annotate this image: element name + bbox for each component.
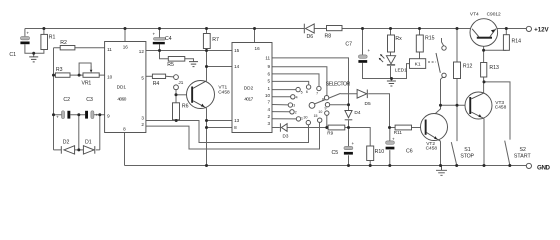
svg-text:13: 13 — [234, 118, 240, 123]
svg-text:3: 3 — [293, 104, 295, 108]
wire diode row D2 D1 — [54, 149, 100, 151]
svg-text:DD1: DD1 — [117, 84, 127, 89]
wire C2/C3 line to DD1 pin 9 — [54, 114, 105, 116]
wire DD2 pin 16 to rail — [254, 29, 256, 43]
diode D6 — [303, 24, 305, 34]
svg-text:30: 30 — [304, 116, 308, 120]
wire DD1 pin 2 route to selector contact 15 — [146, 122, 320, 149]
wire C4 bottom lead — [159, 44, 161, 50]
wire R14 top lead — [505, 29, 507, 35]
wire VT2 collector riser — [427, 105, 441, 121]
svg-text:C458: C458 — [495, 104, 507, 110]
svg-text:C5: C5 — [332, 150, 339, 156]
resistor R12 — [454, 62, 461, 79]
selector contact 3 — [288, 103, 292, 107]
svg-text:C3: C3 — [86, 97, 93, 103]
wire VT3 emitter to ground rail — [483, 119, 485, 166]
wire DD2 pin 7 to contact 3 — [272, 104, 288, 106]
wire C6 top lead — [389, 128, 391, 141]
capacitor C6 — [386, 141, 395, 144]
svg-text:5: 5 — [301, 91, 303, 95]
svg-text:+: + — [153, 31, 156, 36]
resistor R13 — [481, 63, 487, 78]
wire D3 to R9 — [287, 127, 328, 129]
selector contact 8 — [324, 96, 328, 100]
wire R12 top lead — [456, 29, 458, 63]
svg-text:C7: C7 — [345, 41, 352, 47]
resistor R3 — [55, 73, 70, 77]
svg-text:+: + — [392, 136, 395, 141]
wire R11 line left — [390, 127, 396, 129]
svg-text:R2: R2 — [60, 40, 67, 46]
transistor VT4 — [470, 19, 498, 47]
wire R1 top lead — [43, 29, 45, 35]
svg-text:DD2: DD2 — [244, 85, 254, 90]
wire D4 column through D4 to R9 node — [348, 105, 350, 128]
svg-text:C458: C458 — [426, 145, 438, 151]
svg-text:7: 7 — [268, 100, 271, 105]
wire bottom ground rail — [125, 165, 527, 167]
wire R3/VR1 line to DD1 pin 10 — [54, 74, 105, 76]
potentiometer VR1 — [83, 73, 99, 77]
wire top rail R8 to VT4 collector — [342, 28, 472, 30]
wire R13 top lead — [483, 50, 485, 62]
wire R5 branch to ground — [160, 51, 194, 62]
svg-text:GND: GND — [537, 164, 551, 171]
wire DD2 pin 3 to D3 — [272, 127, 280, 129]
wire DD2 pin 10 to contact 4 — [272, 96, 291, 98]
svg-text:+: + — [26, 30, 29, 35]
selector contact 1 — [296, 117, 300, 121]
LED1 — [386, 56, 395, 64]
wire LED1 cathode to ground node — [390, 66, 392, 79]
resistor R5 — [168, 57, 185, 62]
transistor VT3 — [465, 92, 492, 119]
wire DD2 pin 2 to contact 1 — [272, 118, 296, 120]
capacitor C5 — [344, 146, 353, 149]
wire contact 10 stub — [326, 115, 328, 127]
wire Rx top lead — [390, 29, 392, 36]
svg-text:11: 11 — [265, 56, 270, 61]
resistor R6 — [173, 103, 180, 120]
wire R7 top lead — [206, 29, 208, 34]
diode D3 — [279, 123, 281, 131]
svg-text:R3: R3 — [56, 67, 63, 73]
svg-text:Rx: Rx — [395, 36, 402, 42]
selector contact 9 — [325, 103, 329, 107]
capacitor C3 — [85, 111, 88, 119]
wire C1 top lead — [24, 29, 26, 37]
wire K1 contact bottom to VT2 collector node — [441, 77, 443, 105]
selector contact 2 — [290, 110, 294, 114]
wire R9 to C5/D4 node and R10 corner — [345, 128, 370, 147]
wire R4 to J1 top — [166, 75, 174, 78]
selector contact 4 — [291, 95, 295, 99]
wire DD2 pin 9 to contact 8 — [272, 67, 327, 96]
svg-text:9: 9 — [107, 113, 110, 118]
wire VT1 base — [176, 94, 191, 96]
wire DD1 pin 3 route to selector contact 30 — [146, 121, 309, 143]
svg-text:10: 10 — [265, 93, 271, 98]
terminal GND — [526, 163, 531, 168]
selector contact 30 — [306, 120, 310, 124]
svg-text:2: 2 — [141, 122, 144, 127]
svg-text:+: + — [56, 114, 59, 119]
svg-text:3: 3 — [141, 115, 144, 120]
transistor VT2 — [421, 114, 448, 141]
wire R13 bottom to VT3 collector — [483, 77, 485, 93]
svg-text:R8: R8 — [325, 34, 332, 40]
wire C1 bottom lead to ground node — [25, 44, 34, 53]
wire C4 top lead — [159, 29, 161, 38]
wire to DD2 pin 8 — [207, 127, 233, 129]
wire contact 9 to D4 column — [330, 104, 349, 106]
wire DD2 pin 5 to contact 6 — [272, 81, 309, 84]
svg-text:2: 2 — [268, 114, 271, 119]
wire D5 to R11 column — [368, 94, 389, 128]
svg-text:C9012: C9012 — [487, 11, 501, 17]
wire R7 bottom to VT1 collector node — [206, 49, 208, 81]
svg-text:16: 16 — [255, 46, 261, 51]
selector contact 5 — [296, 87, 300, 91]
resistor R1 — [41, 34, 48, 49]
wire DD2 pin 1 to contact 5 — [272, 89, 296, 91]
wire C6 bottom lead — [389, 150, 391, 165]
wire Rx to LED1 — [390, 52, 392, 56]
svg-text:J1: J1 — [178, 80, 183, 85]
capacitor C4 — [153, 38, 165, 41]
svg-text:VR1: VR1 — [82, 81, 92, 87]
svg-text:D2: D2 — [63, 140, 70, 146]
svg-text:4: 4 — [268, 107, 271, 112]
wire C5 bottom lead — [348, 155, 350, 165]
svg-text:9: 9 — [268, 64, 271, 69]
svg-text:2: 2 — [295, 111, 297, 115]
svg-text:C458: C458 — [218, 89, 230, 95]
svg-text:+: + — [352, 141, 355, 146]
svg-text:R14: R14 — [512, 39, 522, 45]
resistor R14 — [503, 35, 509, 51]
wire top supply rail left segment — [25, 28, 304, 30]
svg-text:R12: R12 — [463, 63, 473, 69]
wire DD2 pin 6 to contact 7 — [272, 74, 319, 86]
svg-text:D3: D3 — [283, 134, 289, 139]
ground symbol after R5 — [189, 62, 198, 67]
capacitor C7 — [358, 55, 367, 58]
wire VT2 emitter to ground rail — [440, 141, 442, 165]
capacitor C2 — [62, 111, 65, 119]
svg-text:R10: R10 — [375, 149, 385, 155]
relay contact K1.1 — [442, 46, 446, 50]
svg-text:3: 3 — [268, 121, 271, 126]
svg-text:D4: D4 — [354, 110, 360, 116]
svg-text:R15: R15 — [425, 36, 435, 42]
wire R10 bottom lead — [369, 161, 371, 166]
terminal +12V — [526, 26, 531, 31]
svg-text:SELECTOR: SELECTOR — [326, 81, 351, 87]
svg-text:8: 8 — [123, 126, 126, 131]
diode D4 — [345, 111, 352, 118]
selector contact 6 — [306, 85, 310, 89]
wire J1 bottom to VT1 base node — [175, 90, 177, 95]
ground symbol under C1/R1 node — [29, 53, 38, 62]
wire to DD2 pin 13 — [207, 120, 233, 122]
svg-text:4060: 4060 — [117, 96, 126, 101]
relay coil K1 — [410, 59, 426, 69]
svg-text:12: 12 — [139, 49, 145, 54]
transistor VT1 — [187, 81, 215, 109]
selector contact 15 — [318, 118, 322, 122]
svg-text:S1: S1 — [464, 147, 470, 153]
svg-text:16: 16 — [123, 44, 129, 49]
resistor R9 — [328, 125, 345, 130]
wire +12V rail from VT4 emitter to terminal — [496, 28, 526, 30]
wire node to DD2 pin 14 — [207, 66, 233, 68]
IC DD1 4060 — [105, 42, 146, 133]
wire VT4 base lead — [483, 39, 485, 51]
svg-text:R5: R5 — [167, 62, 174, 68]
wire VT4 base node to R14 — [484, 49, 507, 51]
svg-text:C2: C2 — [63, 97, 70, 103]
svg-text:6: 6 — [306, 90, 308, 94]
wire DD1 pin 8 to ground rail — [124, 133, 126, 166]
wire VT1 emitter to ground rail — [206, 108, 208, 165]
wire R6 bottom to DD1 pin 3 route — [175, 119, 177, 122]
wire top rail between D6 and R8 — [314, 28, 326, 30]
diode D1 — [83, 146, 94, 154]
svg-text:START: START — [514, 154, 532, 160]
jumper J1 — [174, 75, 179, 80]
wire center tap C2C3 to diode junction — [78, 115, 80, 150]
svg-text:15: 15 — [234, 48, 240, 53]
svg-text:+12V: +12V — [534, 26, 549, 33]
svg-text:D5: D5 — [365, 101, 371, 107]
diode D2 — [60, 146, 62, 154]
ground symbol under VT2 emitter — [436, 166, 447, 176]
svg-text:K1: K1 — [415, 62, 421, 68]
svg-text:VT4: VT4 — [470, 11, 479, 17]
svg-text:10: 10 — [318, 110, 322, 114]
svg-text:LED1: LED1 — [395, 68, 407, 74]
resistor R10 — [367, 146, 374, 161]
resistor Rx — [388, 35, 395, 52]
svg-text:4: 4 — [296, 96, 298, 100]
wire C7 bottom to LED ground node — [363, 63, 392, 79]
resistor R4 — [152, 74, 165, 78]
wire DD1 pin 5 to R4 — [146, 75, 153, 77]
svg-text:5: 5 — [268, 78, 271, 83]
wire C5 top lead — [348, 128, 350, 147]
svg-text:R1: R1 — [49, 35, 56, 41]
wire node A vertical (R2/R3/C2/D2) — [53, 48, 55, 150]
svg-text:9: 9 — [325, 107, 327, 111]
svg-text:C1: C1 — [9, 52, 16, 58]
wire DD1 pin 16 to rail — [124, 29, 126, 42]
diode D5 — [357, 90, 367, 99]
wire S1 upper lead — [456, 105, 458, 141]
wire VR1 wiper tie — [79, 63, 91, 75]
svg-text:STOP: STOP — [460, 154, 474, 160]
capacitor C1 — [20, 37, 29, 40]
ground symbol under LED1 — [387, 79, 396, 87]
svg-text:10: 10 — [107, 74, 113, 79]
svg-text:+: + — [368, 48, 371, 53]
wire R15 to K1 coil — [419, 52, 421, 59]
wire selector wiper arm — [314, 93, 340, 104]
wire DD2 pin 4 to contact 2 — [272, 111, 290, 113]
svg-text:C4: C4 — [165, 36, 172, 42]
wire K1 coil left terminal to ground node — [392, 64, 410, 79]
wire wiper to D5 — [341, 93, 358, 95]
wire S2 arm — [505, 141, 510, 165]
svg-text:R6: R6 — [182, 103, 189, 109]
selector wiper pivot — [309, 103, 315, 109]
svg-text:R7: R7 — [212, 37, 219, 43]
svg-text:S2: S2 — [520, 147, 526, 153]
wire S1 arm — [451, 142, 456, 165]
svg-text:5: 5 — [141, 75, 144, 80]
wire R6 top lead — [175, 95, 177, 103]
IC DD2 4017 — [232, 43, 272, 133]
svg-text:8: 8 — [234, 125, 237, 130]
svg-text:11: 11 — [107, 47, 112, 52]
resistor R11 — [395, 125, 411, 130]
wire R12 bottom lead — [456, 79, 458, 106]
wire VT3 collector node to S2 — [484, 82, 510, 140]
svg-text:R13: R13 — [489, 65, 499, 71]
resistor R8 — [327, 26, 343, 31]
svg-text:R11: R11 — [394, 130, 403, 135]
wire VT2 base node to VT3 base — [441, 104, 470, 106]
svg-text:D1: D1 — [85, 140, 92, 146]
wire DD1 pin 12 / C4 / R7 to DD2 pin 15 — [146, 50, 232, 52]
wire C7 top lead — [362, 29, 364, 55]
wire R11 to VT2 base — [412, 127, 426, 129]
svg-text:15: 15 — [314, 114, 318, 118]
svg-text:8: 8 — [322, 98, 324, 102]
svg-text:1: 1 — [268, 86, 271, 91]
svg-text:+: + — [96, 113, 99, 118]
svg-text:R9: R9 — [327, 130, 333, 135]
svg-text:7: 7 — [316, 92, 318, 96]
svg-text:6: 6 — [268, 71, 271, 76]
resistor R15 — [416, 35, 423, 52]
wire DD2 pin 11 to selector node / D4 column — [272, 58, 349, 105]
svg-text:D6: D6 — [307, 34, 314, 40]
wire R15 top lead — [419, 29, 421, 36]
svg-text:14: 14 — [234, 64, 240, 69]
wire D1 cathode riser — [99, 115, 101, 150]
wire K1 contact top stub — [442, 38, 444, 46]
svg-text:4017: 4017 — [244, 97, 253, 102]
wire R2 line node A to DD1 pin 11 — [54, 47, 105, 49]
selector contact 10 — [325, 111, 329, 115]
svg-text:C6: C6 — [406, 148, 413, 154]
resistor R7 — [203, 34, 210, 49]
resistor R2 — [60, 46, 75, 50]
svg-text:R4: R4 — [153, 81, 160, 87]
selector contact 7 — [317, 86, 321, 90]
wire R1 bottom lead to ground node — [34, 50, 44, 54]
